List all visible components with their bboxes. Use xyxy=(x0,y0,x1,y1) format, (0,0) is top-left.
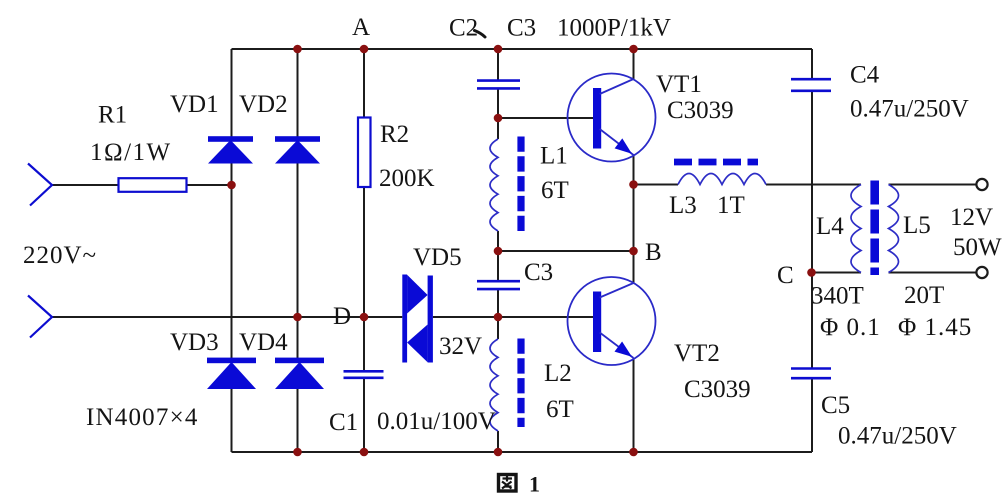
inductor L3 core xyxy=(674,159,758,166)
transformer core xyxy=(870,181,879,276)
svg-text:R2: R2 xyxy=(380,121,409,148)
junction bottom rail / VT2 emitter xyxy=(629,448,638,457)
wire C1 bottom to rail xyxy=(363,378,365,452)
wire VD3 column lower xyxy=(231,389,233,453)
svg-text:C4: C4 xyxy=(850,62,880,89)
inductor L1 core xyxy=(517,137,524,232)
wire R2 bottom to D to C1 xyxy=(363,187,365,371)
inductor L1 coil xyxy=(490,139,498,231)
junction node B xyxy=(629,247,638,256)
wire node C to L4 bottom xyxy=(812,272,861,274)
svg-text:VT1: VT1 xyxy=(656,71,702,98)
svg-text:1000P/1kV: 1000P/1kV xyxy=(557,15,671,42)
capacitor C1 xyxy=(344,371,384,378)
wire A to R2 top xyxy=(363,49,365,118)
wire C4 bottom to node C to C5 top xyxy=(811,91,813,369)
capacitor C3 xyxy=(477,281,520,289)
wire bottom rail xyxy=(232,451,813,453)
svg-text:VD5: VD5 xyxy=(413,244,462,271)
transistor VT1 xyxy=(568,74,656,162)
svg-text:L2: L2 xyxy=(544,360,572,387)
wire VD2 column upper xyxy=(297,49,299,137)
wire VT1 base xyxy=(498,117,593,119)
label ideographic comma xyxy=(475,31,486,38)
svg-text:0.47u/250V: 0.47u/250V xyxy=(838,423,957,450)
capacitor C4 xyxy=(791,79,831,91)
transformer secondary winding L5 xyxy=(889,185,899,273)
svg-text:A: A xyxy=(352,14,370,41)
output terminal bottom xyxy=(976,267,987,278)
diode VD4 xyxy=(275,358,324,389)
wire L3 to L4 top xyxy=(766,184,861,186)
svg-text:VD4: VD4 xyxy=(239,329,288,356)
capacitor C5 xyxy=(791,369,831,379)
wire VD2-VD4 column middle xyxy=(297,163,299,358)
wire L5 top to output xyxy=(889,184,977,186)
resistor R2 xyxy=(358,118,371,188)
svg-text:B: B xyxy=(645,239,662,266)
junction L1 bottom / C3 top / B wire xyxy=(494,247,503,256)
svg-text:C3039: C3039 xyxy=(667,97,734,124)
wire C5 bottom to rail xyxy=(811,378,813,452)
junction bottom rail / L2 column xyxy=(494,448,503,457)
junction node D xyxy=(360,313,369,322)
junction bottom rail / VD4 column xyxy=(293,448,302,457)
junction node C xyxy=(807,268,816,277)
wire VD1-VD3 column middle xyxy=(231,163,233,358)
wire L2 bottom to rail xyxy=(497,431,499,452)
wire L5 bottom to output xyxy=(889,272,977,274)
svg-text:C3: C3 xyxy=(524,259,553,286)
wire B column to L3 xyxy=(634,184,679,186)
svg-text:1Ω/1W: 1Ω/1W xyxy=(90,139,172,166)
wire A node to C2 top xyxy=(497,49,499,81)
svg-text:220V~: 220V~ xyxy=(23,242,97,269)
wire VD1 column upper xyxy=(231,49,233,137)
wire VT2 base xyxy=(498,316,593,318)
svg-text:Φ 0.1: Φ 0.1 xyxy=(820,314,881,341)
wire C3 bottom to L2 top xyxy=(497,289,499,339)
wire L1 bottom to C3 top xyxy=(497,231,499,281)
junction top rail / C2 column xyxy=(494,45,503,54)
wire VT2 emitter to rail xyxy=(633,358,635,452)
diode VD2 xyxy=(275,136,320,163)
input terminal 2 (220V neutral) xyxy=(28,296,52,338)
svg-text:C5: C5 xyxy=(821,392,850,419)
wire C2 bottom to L1 top xyxy=(497,88,499,139)
svg-text:L1: L1 xyxy=(540,143,568,170)
junction R1 / bridge left arm xyxy=(227,181,236,190)
svg-text:R1: R1 xyxy=(98,102,127,129)
transformer primary winding L4 xyxy=(851,185,861,273)
caption figure character (tu) xyxy=(499,475,517,492)
wire input1 to R1 xyxy=(52,184,119,186)
junction top rail / VT1 collector xyxy=(629,45,638,54)
diac VD5 xyxy=(402,275,433,363)
svg-text:C1: C1 xyxy=(329,409,358,436)
wire VT1 collector to top rail xyxy=(633,49,635,79)
svg-text:C2: C2 xyxy=(449,15,478,42)
capacitor C2 xyxy=(477,81,520,89)
junction VD5 / C3 bottom / VT2 base xyxy=(494,313,503,322)
junction top rail / VD2 column xyxy=(293,45,302,54)
wire C4 top to rail xyxy=(811,49,813,79)
svg-text:IN4007×4: IN4007×4 xyxy=(86,404,199,431)
svg-text:L3: L3 xyxy=(669,192,697,219)
output terminal top xyxy=(976,179,987,190)
diode VD1 xyxy=(208,136,253,163)
svg-text:VD2: VD2 xyxy=(239,91,288,118)
junction VT1 emitter / L3 xyxy=(629,180,638,189)
svg-text:0.47u/250V: 0.47u/250V xyxy=(850,96,969,123)
inductor L2 coil xyxy=(490,339,498,431)
wire VT1 emitter to B node xyxy=(633,155,635,283)
resistor R1 xyxy=(119,178,187,192)
svg-text:VD3: VD3 xyxy=(170,329,219,356)
svg-text:C: C xyxy=(777,262,794,289)
svg-text:20T: 20T xyxy=(904,282,944,309)
svg-text:L4: L4 xyxy=(816,213,844,240)
inductor L2 core xyxy=(517,339,524,428)
wire top rail A xyxy=(232,48,813,50)
junction C2 bottom / L1 top / VT1 base xyxy=(494,114,503,123)
wire VD4 column lower xyxy=(297,389,299,453)
svg-text:340T: 340T xyxy=(811,283,864,310)
wire input2 to VD5 xyxy=(52,316,402,318)
wire node B horizontal xyxy=(498,250,634,252)
junction node A xyxy=(360,45,369,54)
svg-text:12V: 12V xyxy=(950,204,993,231)
diode VD3 xyxy=(207,358,256,389)
svg-text:50W: 50W xyxy=(953,234,1002,261)
svg-text:6T: 6T xyxy=(546,396,574,423)
svg-text:1: 1 xyxy=(529,472,540,497)
junction bottom rail / C1 column xyxy=(360,448,369,457)
svg-text:D: D xyxy=(333,303,351,330)
svg-text:VT2: VT2 xyxy=(674,340,720,367)
svg-text:C3039: C3039 xyxy=(684,376,751,403)
svg-text:6T: 6T xyxy=(541,177,569,204)
svg-text:0.01u/100V: 0.01u/100V xyxy=(377,408,496,435)
svg-text:Φ 1.45: Φ 1.45 xyxy=(898,314,972,341)
svg-text:VD1: VD1 xyxy=(170,91,219,118)
svg-text:L5: L5 xyxy=(903,212,931,239)
transistor VT2 xyxy=(568,277,656,365)
svg-text:200K: 200K xyxy=(379,165,435,192)
input terminal 1 (220V line) xyxy=(28,164,52,206)
svg-text:C3: C3 xyxy=(507,15,536,42)
wire VD5 to C3 node xyxy=(433,316,498,318)
junction input2 / VD2-VD4 column xyxy=(293,313,302,322)
inductor L3 coil xyxy=(678,174,766,185)
wire R1 to bridge junction xyxy=(187,184,232,186)
svg-text:1T: 1T xyxy=(717,192,745,219)
svg-text:32V: 32V xyxy=(439,333,482,360)
